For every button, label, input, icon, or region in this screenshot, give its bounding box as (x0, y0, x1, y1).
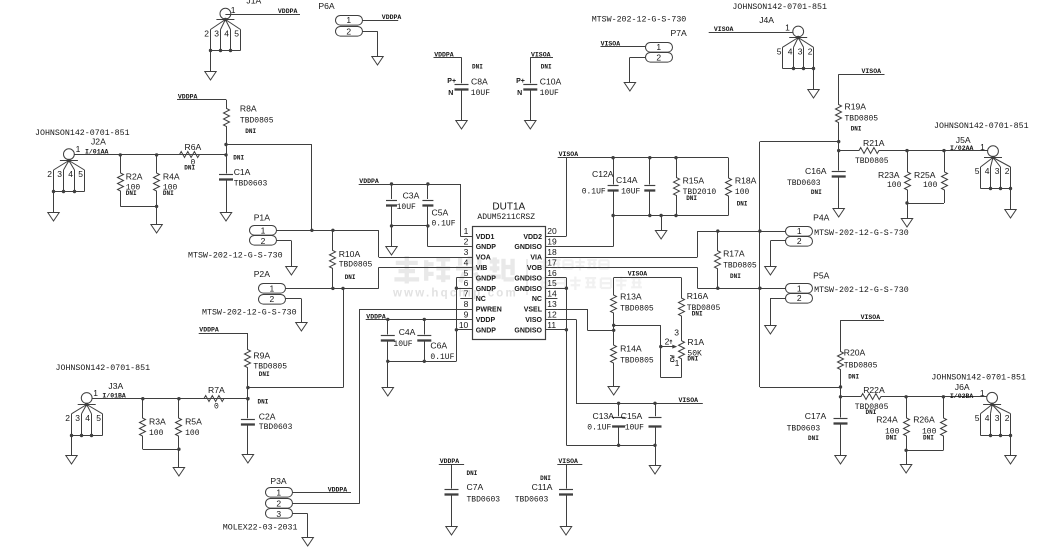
wire R3A/R5A bottoms (143, 448, 181, 451)
wire R21A to J5A (905, 149, 987, 152)
svg-text:1: 1 (785, 22, 790, 32)
ground (C12A rail) (655, 231, 666, 240)
wire C12A rail ground stem (661, 216, 663, 231)
ground (C13A/C15A) (649, 466, 660, 475)
svg-text:DNI: DNI (245, 128, 256, 135)
svg-text:VISOA: VISOA (861, 314, 881, 321)
svg-text:GNDISO: GNDISO (514, 327, 542, 334)
svg-text:VIA: VIA (530, 255, 542, 262)
svg-text:DNI: DNI (259, 371, 270, 378)
svg-text:VSEL: VSEL (524, 307, 543, 314)
svg-text:4: 4 (464, 257, 469, 267)
svg-text:DNI: DNI (258, 399, 269, 406)
capacitor C8A 10UF polarized (447, 57, 490, 120)
wire R9A junction to P2A column (248, 288, 344, 387)
svg-text:C12A: C12A (592, 169, 614, 179)
svg-text:DNI: DNI (467, 470, 478, 477)
net label VISOA (C12A rail) (559, 151, 579, 158)
svg-text:P7A: P7A (671, 28, 688, 38)
svg-text:GNDISO: GNDISO (514, 275, 542, 282)
svg-text:P+: P+ (516, 78, 525, 85)
wire VDDPA rail to IC pin 9 (VDDP) (366, 318, 473, 321)
connector P7A header (592, 16, 687, 63)
svg-text:JOHNSON142-0701-851: JOHNSON142-0701-851 (934, 122, 1029, 131)
svg-text:C16A: C16A (805, 166, 827, 176)
svg-text:4: 4 (224, 29, 229, 39)
decorative watermark (392, 256, 642, 300)
resistor R25A 100 (914, 151, 948, 203)
svg-text:DNI: DNI (848, 374, 859, 381)
svg-text:9: 9 (464, 309, 469, 319)
connector P2A header (202, 269, 297, 317)
ground (C16A) (833, 209, 844, 218)
wire R13A junction to R1A wiper (614, 325, 661, 346)
connector P4A header (786, 212, 909, 246)
svg-text:12: 12 (547, 309, 557, 319)
svg-text:DNI: DNI (687, 356, 698, 363)
svg-text:1: 1 (797, 226, 802, 236)
svg-text:DNI: DNI (730, 273, 741, 280)
svg-text:4: 4 (985, 166, 990, 176)
svg-text:R24A: R24A (876, 415, 898, 425)
resistor R10A TBD0805 (330, 230, 373, 288)
net label VISOA (C10A) (530, 51, 553, 58)
wire C4A ground stem (387, 361, 389, 387)
svg-text:3: 3 (57, 169, 62, 179)
svg-text:5: 5 (777, 47, 782, 57)
svg-text:C7A: C7A (467, 482, 484, 492)
ground (P5A pin 2) (765, 326, 776, 335)
svg-text:2: 2 (656, 53, 661, 63)
svg-text:P1A: P1A (254, 213, 271, 223)
svg-text:MTSW-202-12-G-S-730: MTSW-202-12-G-S-730 (592, 16, 687, 25)
svg-text:DNI: DNI (851, 125, 862, 132)
resistor R13A TBD0805 (611, 278, 654, 331)
svg-text:MOLEX22-03-2031: MOLEX22-03-2031 (223, 523, 298, 532)
svg-text:JOHNSON142-0701-851: JOHNSON142-0701-851 (931, 373, 1026, 382)
svg-text:C2A: C2A (259, 411, 276, 421)
svg-text:7: 7 (464, 289, 469, 299)
svg-text:VISOA: VISOA (559, 151, 579, 158)
svg-text:15: 15 (547, 278, 557, 288)
svg-text:VDDPA: VDDPA (382, 14, 402, 21)
connector J3A jack (56, 364, 151, 464)
svg-text:I/02BA: I/02BA (950, 393, 974, 400)
svg-text:GNDISO: GNDISO (514, 244, 542, 251)
wire R9A to C2A (248, 388, 269, 406)
svg-text:ADUM5211CRSZ: ADUM5211CRSZ (477, 213, 535, 222)
wire VISOA rail R13A/R16A (614, 277, 682, 279)
svg-text:TBD0603: TBD0603 (787, 424, 821, 433)
svg-text:19: 19 (547, 237, 557, 247)
svg-text:DNI: DNI (692, 310, 703, 317)
wire P7A pin 1 VISOA (601, 46, 646, 48)
node R22A junction (839, 395, 842, 398)
svg-text:R6A: R6A (185, 142, 202, 152)
svg-text:3: 3 (798, 47, 803, 57)
svg-text:J1A: J1A (246, 0, 261, 5)
svg-text:100: 100 (149, 429, 164, 438)
svg-text:GNDP: GNDP (476, 244, 497, 251)
svg-text:R25A: R25A (914, 170, 936, 180)
wire P2A pin 2 to ground (286, 299, 302, 323)
svg-text:R21A: R21A (863, 138, 885, 148)
svg-text:R2A: R2A (126, 171, 143, 181)
wire P3A pin 1 VDDPA (292, 492, 351, 494)
svg-text:TBD0805: TBD0805 (855, 157, 889, 166)
svg-text:NC: NC (476, 296, 486, 303)
ground (P1A pin 2) (286, 267, 297, 276)
svg-text:DNI: DNI (686, 195, 697, 202)
potentiometer R1A 50K (659, 327, 704, 377)
connector P3A header (223, 476, 298, 532)
svg-text:P4A: P4A (813, 212, 830, 222)
svg-text:14: 14 (547, 289, 557, 299)
svg-text:0.1UF: 0.1UF (432, 220, 456, 229)
resistor R22A TBD0805 (841, 385, 907, 416)
capacitor C6A 0.1UF (417, 319, 454, 361)
svg-text:2: 2 (65, 413, 70, 423)
wire P1A pin 2 to ground (277, 241, 292, 267)
resistor R23A 100 (878, 151, 911, 203)
connector J4A jack (732, 3, 827, 98)
capacitor C14A 10UF (616, 158, 655, 216)
svg-text:J2A: J2A (91, 136, 106, 146)
svg-text:J3A: J3A (108, 381, 123, 391)
svg-text:C14A: C14A (616, 175, 638, 185)
wire R20A to R22A (840, 387, 842, 397)
svg-text:C17A: C17A (805, 411, 827, 421)
wire P5A pin 2 to ground (770, 298, 785, 325)
wire R8A to C1A (227, 145, 245, 162)
svg-text:2: 2 (270, 294, 275, 304)
svg-text:3: 3 (75, 413, 80, 423)
op-amp U1 / IC DUT1A ADUM5211CRSZ (459, 201, 558, 339)
svg-text:R16A: R16A (687, 291, 709, 301)
svg-text:100: 100 (185, 429, 200, 438)
svg-text:1: 1 (270, 284, 275, 294)
net label VDDPA (C4A rail) (366, 314, 386, 321)
wire net VISOA to J4A pin 1 (709, 32, 793, 34)
svg-text:DNI: DNI (472, 63, 483, 70)
resistor R14A TBD0805 (611, 330, 654, 386)
capacitor C13A 0.1UF (587, 403, 625, 445)
resistor R5A 100 (176, 399, 203, 450)
wire R2A/R4A bottoms (120, 205, 158, 208)
capacitor C1A TBD0603 (219, 155, 268, 213)
wire P2A pin 1 to IC pin 4 (VIB) (286, 267, 473, 290)
connector P6A header (318, 1, 362, 36)
svg-text:TBD0805: TBD0805 (620, 357, 654, 366)
svg-text:GNDISO: GNDISO (514, 286, 542, 293)
net label VISOA (R20A) (841, 314, 885, 321)
svg-text:DNI: DNI (184, 165, 195, 172)
ground (P7A pin 2) (624, 83, 635, 92)
resistor R9A TBD0805 (245, 333, 288, 388)
svg-text:P6A: P6A (318, 1, 335, 11)
svg-text:CW: CW (669, 355, 676, 363)
wire VDDPA rail to IC pin 1 (359, 182, 461, 236)
connector P1A header (188, 213, 283, 261)
node VSEL junction (612, 324, 615, 332)
svg-text:www.hqchip.com: www.hqchip.com (392, 288, 518, 300)
resistor R20A TBD0805 (838, 320, 878, 387)
ground (P2A pin 2) (296, 323, 307, 332)
node R7A/C2A junction (246, 397, 249, 400)
svg-text:5: 5 (975, 413, 980, 423)
svg-text:C4A: C4A (399, 327, 416, 337)
svg-text:3: 3 (214, 29, 219, 39)
svg-text:TBD0805: TBD0805 (620, 305, 654, 314)
svg-text:10: 10 (459, 320, 469, 330)
svg-text:C3A: C3A (403, 190, 420, 200)
resistor R8A TBD0805 (224, 100, 274, 145)
svg-text:2: 2 (797, 293, 802, 303)
svg-text:TBD0603: TBD0603 (234, 180, 268, 189)
svg-text:TBD0603: TBD0603 (259, 423, 293, 432)
capacitor C11A TBD0603 DNI (515, 464, 573, 526)
net label VISOA (P7A) (601, 40, 621, 47)
svg-text:I/02AA: I/02AA (950, 145, 974, 152)
svg-text:2: 2 (261, 236, 266, 246)
svg-text:VISOA: VISOA (714, 26, 734, 33)
svg-text:DNI: DNI (886, 434, 897, 441)
wire R8A junction to P1A column (226, 145, 312, 231)
svg-text:DNI: DNI (540, 475, 551, 482)
svg-text:C5A: C5A (432, 207, 449, 217)
connector J1A jack (204, 0, 261, 80)
resistor R16A TBD0805 DNI (679, 278, 721, 337)
svg-text:P5A: P5A (813, 270, 830, 280)
node J2A/R6A/C1A junction (224, 153, 227, 156)
svg-text:3: 3 (276, 509, 281, 519)
svg-text:R23A: R23A (878, 170, 900, 180)
capacitor C17A TBD0603 (787, 397, 848, 456)
node R20A bottom junction (839, 385, 842, 388)
net label VDDPA (R8A) (177, 93, 226, 100)
resistor R21A TBD0805 (839, 138, 907, 166)
net label VDDPA (P6A) (382, 14, 402, 21)
wire C3A/C5A bottoms (390, 224, 430, 227)
svg-text:J6A: J6A (955, 382, 970, 392)
wire P7A pin 2 to ground (630, 57, 646, 83)
svg-text:JOHNSON142-0701-851: JOHNSON142-0701-851 (732, 3, 827, 12)
connector J5A jack (934, 122, 1029, 218)
wire R23A ground stem (907, 203, 909, 218)
svg-text:VIB: VIB (476, 265, 488, 272)
svg-text:JOHNSON142-0701-851: JOHNSON142-0701-851 (56, 364, 151, 373)
svg-text:C15A: C15A (621, 411, 643, 421)
svg-text:TBD0805: TBD0805 (240, 117, 274, 126)
svg-text:MTSW-202-12-G-S-730: MTSW-202-12-G-S-730 (814, 229, 909, 238)
svg-text:R18A: R18A (735, 176, 757, 186)
svg-text:R26A: R26A (913, 415, 935, 425)
svg-text:VDDPA: VDDPA (328, 487, 348, 494)
capacitor C12A 0.1UF (582, 158, 619, 197)
net label VDDPA (P3A) (328, 487, 348, 494)
svg-text:16: 16 (547, 268, 557, 278)
svg-text:3: 3 (995, 166, 1000, 176)
svg-text:18: 18 (547, 247, 557, 257)
node R21A junction (837, 149, 840, 152)
svg-text:100: 100 (887, 181, 902, 190)
net label VISOA (R19A) (839, 68, 885, 75)
connector P5A header (786, 270, 909, 303)
ground (P4A pin 2) (765, 267, 776, 276)
svg-text:MTSW-202-12-G-S-730: MTSW-202-12-G-S-730 (202, 309, 297, 318)
wire J3A pin 1 row (92, 397, 250, 400)
wire R24A/R26A bottoms (904, 449, 943, 452)
svg-text:C8A: C8A (471, 76, 488, 86)
node R9A bottom junction (246, 386, 249, 389)
ground (C17A) (835, 456, 846, 465)
svg-text:5: 5 (975, 166, 980, 176)
wire IC pin 13 (VSEL) (557, 309, 613, 331)
ground (P3A pin 3) (302, 538, 313, 547)
ground (C11A) (560, 527, 571, 536)
wire GNDP tie pins 5/6/10 (455, 278, 473, 332)
wire R19A junction to P4A column (760, 141, 839, 143)
net label VDDPA (C8A) (434, 51, 462, 58)
svg-text:DNI: DNI (737, 200, 748, 207)
capacitor C10A 10UF polarized (516, 57, 561, 120)
ground (C10A) (525, 121, 536, 130)
node R19A bottom junction (837, 140, 840, 143)
svg-text:4: 4 (68, 169, 73, 179)
resistor R4A 100 DNI (154, 155, 180, 207)
svg-text:R4A: R4A (163, 171, 180, 181)
svg-text:1: 1 (980, 142, 985, 152)
svg-text:C11A: C11A (532, 482, 553, 492)
svg-text:C13A: C13A (593, 411, 615, 421)
svg-text:2: 2 (1005, 413, 1010, 423)
wire GNDISO rail under C12A group (557, 191, 728, 247)
svg-text:R19A: R19A (845, 102, 867, 112)
svg-text:2: 2 (276, 498, 281, 508)
ground (C3A) (386, 247, 397, 256)
resistor R19A TBD0805 (836, 74, 879, 141)
svg-text:R5A: R5A (185, 417, 202, 427)
svg-text:2: 2 (1005, 166, 1010, 176)
svg-text:P3A: P3A (270, 476, 287, 486)
svg-text:VISOA: VISOA (862, 68, 882, 75)
ground (R23A/R25A) (901, 219, 912, 228)
capacitor C3A 10UF (386, 184, 420, 226)
net label VDDPA (R9A) (199, 326, 248, 333)
svg-text:DNI: DNI (808, 435, 819, 442)
svg-text:13: 13 (547, 299, 557, 309)
capacitor C4A 10UF (381, 319, 416, 361)
svg-text:TBD0805: TBD0805 (339, 261, 373, 270)
net label VISOA (R13A rail) (628, 270, 648, 277)
wire P4A pin 2 to ground (770, 241, 785, 267)
svg-text:P2A: P2A (254, 269, 271, 279)
connector J6A jack (931, 373, 1026, 464)
wire P1A pin 1 to IC pin 3 (VOA) (277, 229, 473, 258)
wire C5A bottom to IC pin 2 (GNDP) (428, 226, 473, 247)
svg-text:6: 6 (464, 278, 469, 288)
ground (C4A/C6A) (382, 388, 393, 397)
resistor R24A 100 DNI (876, 397, 909, 451)
svg-text:TBD0603: TBD0603 (787, 179, 821, 188)
wire R19A to R21A (838, 142, 840, 151)
svg-text:R14A: R14A (620, 344, 642, 354)
svg-text:10UF: 10UF (625, 424, 644, 433)
wire VISOA column to R20A (760, 142, 841, 388)
net label VISOA (J4A) (714, 26, 734, 33)
svg-text:10UF: 10UF (540, 89, 559, 98)
svg-text:DNI: DNI (233, 155, 244, 162)
wire C3A ground stem (391, 226, 393, 247)
wire VISOA rail to IC pin 12 (VISO) (557, 319, 702, 405)
svg-text:VDDP: VDDP (476, 317, 496, 324)
net label VDDPA (J1A) (278, 8, 298, 15)
svg-text:VDD1: VDD1 (476, 234, 495, 241)
svg-text:1: 1 (980, 388, 985, 398)
svg-text:DNI: DNI (345, 274, 356, 281)
svg-text:2: 2 (808, 47, 813, 57)
wire J2A pin 1 row (74, 153, 226, 156)
svg-text:0.1UF: 0.1UF (430, 353, 454, 362)
connector J2A jack (35, 129, 130, 221)
svg-text:J5A: J5A (956, 135, 971, 145)
svg-text:10UF: 10UF (471, 89, 490, 98)
wire net VDDPA from J1A pin 1 (225, 14, 300, 16)
svg-text:DNI: DNI (811, 189, 822, 196)
ground (R3A/R5A) (173, 468, 184, 477)
wire P6A pin 2 to ground (362, 31, 377, 56)
capacitor C15A 10UF (621, 403, 662, 445)
svg-text:GNDP: GNDP (476, 327, 497, 334)
svg-text:2: 2 (665, 337, 670, 347)
svg-text:10UF: 10UF (397, 203, 416, 212)
ground (R24A/R26A) (900, 465, 911, 474)
svg-text:3: 3 (674, 327, 679, 337)
svg-text:VDDPA: VDDPA (359, 178, 379, 185)
svg-text:3: 3 (464, 247, 469, 257)
wire R4A ground stem (156, 206, 158, 225)
svg-text:R3A: R3A (149, 417, 166, 427)
svg-text:TBD0603: TBD0603 (467, 495, 501, 504)
capacitor C16A TBD0603 (787, 151, 846, 209)
svg-text:R17A: R17A (723, 249, 745, 259)
svg-text:DNI: DNI (923, 434, 934, 441)
wire IC pin 17 (VOB) to P5A pin 1 (557, 267, 785, 290)
svg-text:R22A: R22A (863, 385, 885, 395)
ground (C1A) (220, 213, 231, 222)
wire R24A ground stem (906, 450, 908, 464)
svg-text:R9A: R9A (253, 350, 270, 360)
resistor R6A 0 (160, 142, 226, 172)
wire GNDISO tie pins 16/15/11 (545, 278, 568, 446)
svg-text:4: 4 (788, 47, 793, 57)
svg-text:TBD0805: TBD0805 (723, 262, 757, 271)
svg-text:4: 4 (85, 413, 90, 423)
svg-text:DNI: DNI (163, 190, 174, 197)
svg-text:JOHNSON142-0701-851: JOHNSON142-0701-851 (35, 129, 130, 138)
svg-text:5: 5 (96, 413, 101, 423)
svg-text:GNDP: GNDP (476, 275, 497, 282)
svg-text:2: 2 (797, 236, 802, 246)
ground (R14A) (608, 387, 619, 396)
svg-text:PWREN: PWREN (476, 307, 502, 314)
svg-text:R1A: R1A (687, 337, 704, 347)
svg-text:VISOA: VISOA (601, 40, 621, 47)
svg-text:TBD0805: TBD0805 (844, 361, 878, 370)
svg-text:1: 1 (76, 144, 81, 154)
svg-text:1: 1 (346, 15, 351, 25)
svg-text:1: 1 (93, 388, 98, 398)
